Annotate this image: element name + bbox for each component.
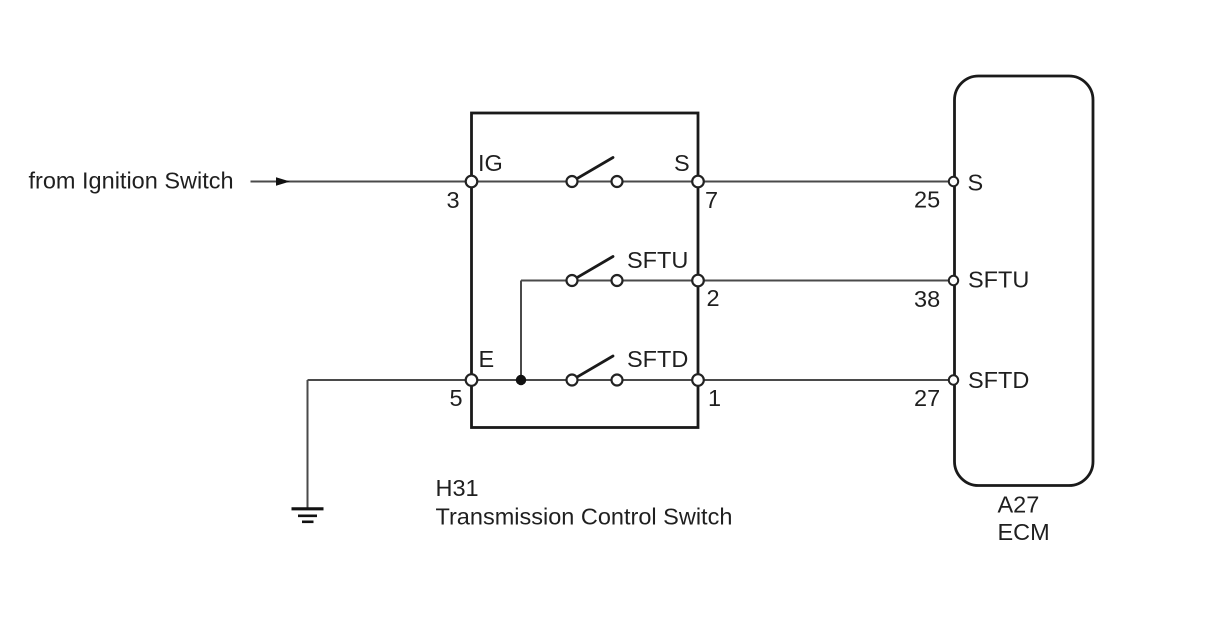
svg-text:1: 1	[708, 385, 721, 411]
svg-text:from Ignition Switch: from Ignition Switch	[29, 168, 234, 194]
svg-text:SFTU: SFTU	[968, 267, 1029, 293]
svg-text:38: 38	[914, 286, 940, 312]
svg-text:S: S	[968, 170, 984, 196]
svg-text:3: 3	[447, 187, 460, 213]
svg-text:25: 25	[914, 187, 940, 213]
svg-text:7: 7	[705, 187, 718, 213]
svg-text:H31: H31	[436, 475, 479, 501]
svg-text:SFTD: SFTD	[627, 346, 688, 372]
svg-text:5: 5	[450, 385, 463, 411]
svg-text:SFTD: SFTD	[968, 367, 1029, 393]
svg-text:2: 2	[707, 285, 720, 311]
svg-text:ECM: ECM	[998, 519, 1050, 545]
svg-text:27: 27	[914, 385, 940, 411]
svg-text:Transmission Control Switch: Transmission Control Switch	[436, 504, 733, 530]
svg-text:S: S	[674, 150, 690, 176]
svg-text:E: E	[479, 346, 495, 372]
svg-text:A27: A27	[998, 492, 1040, 518]
svg-text:SFTU: SFTU	[627, 247, 688, 273]
svg-text:IG: IG	[478, 150, 503, 176]
